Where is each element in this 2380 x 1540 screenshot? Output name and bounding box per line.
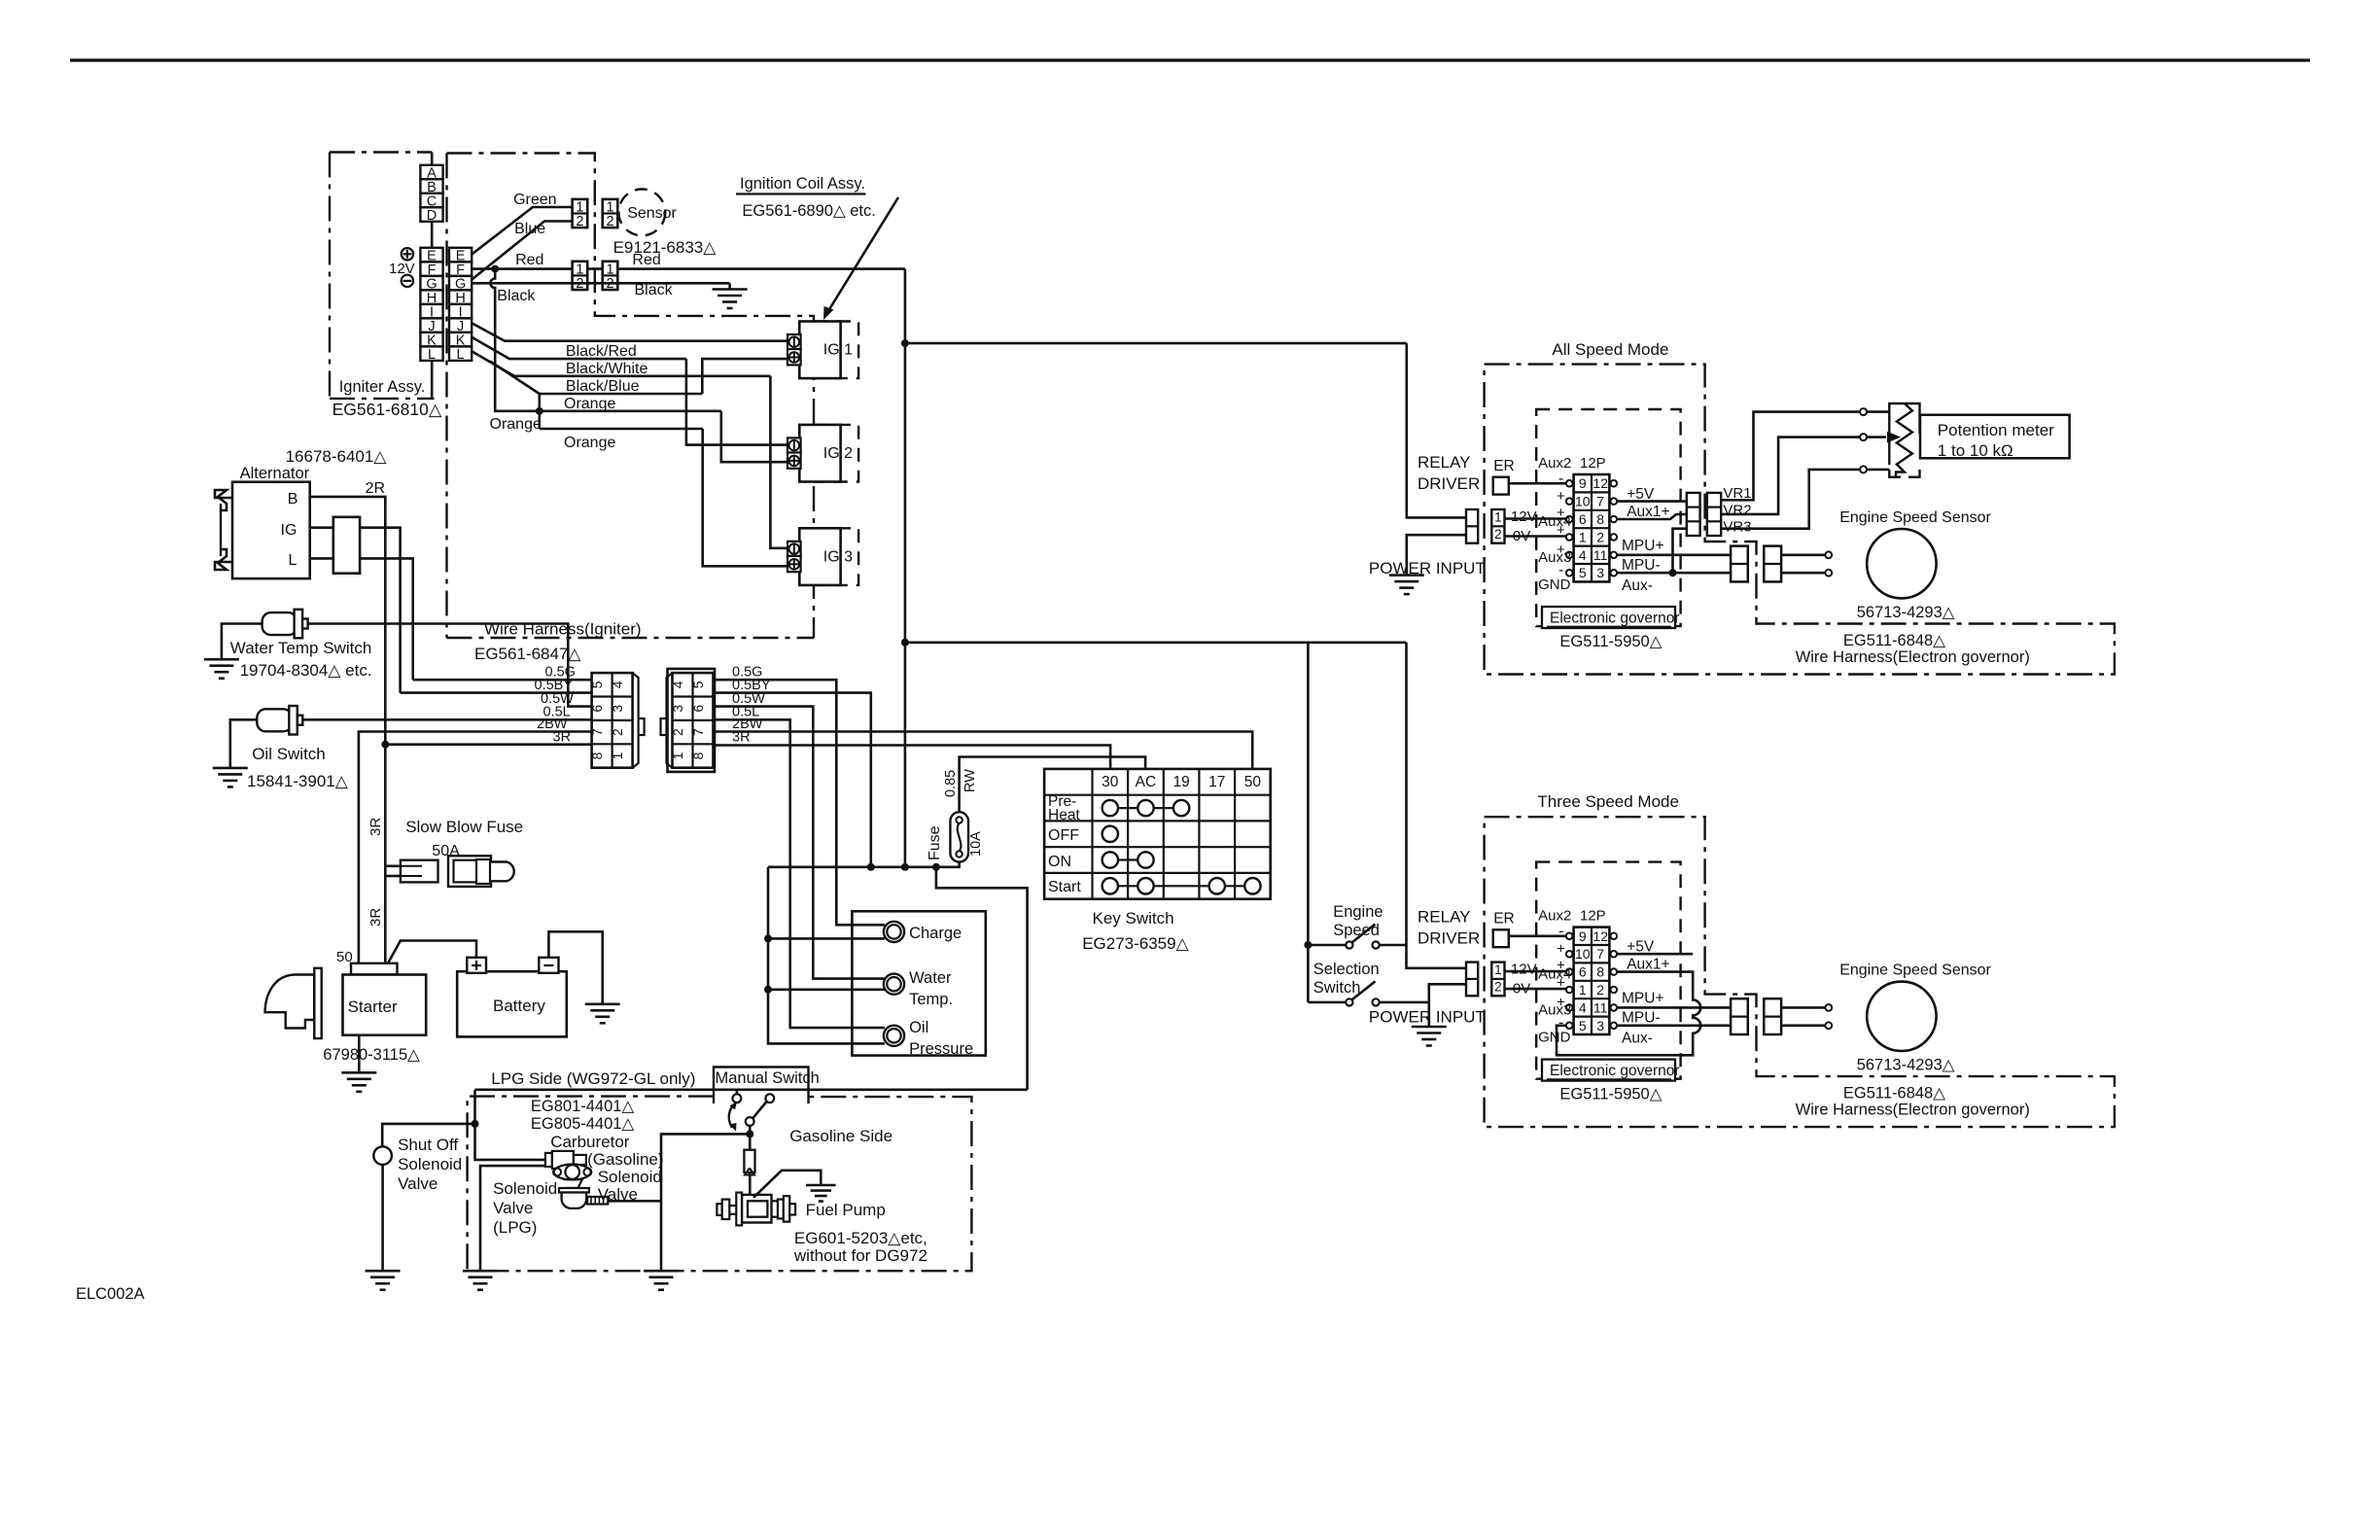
svg-text:6: 6 xyxy=(1579,511,1587,527)
svg-text:L: L xyxy=(289,552,297,569)
svg-text:5: 5 xyxy=(1579,1018,1587,1033)
svg-text:3R: 3R xyxy=(367,908,384,927)
svg-text:Shut Off: Shut Off xyxy=(398,1136,458,1154)
svg-text:Green: Green xyxy=(513,192,556,208)
svg-text:1: 1 xyxy=(606,262,613,277)
svg-text:EG801-4401△: EG801-4401△ xyxy=(531,1098,636,1115)
svg-text:4: 4 xyxy=(670,681,685,688)
wire VR3 to pot xyxy=(1721,470,1860,529)
svg-text:All Speed Mode: All Speed Mode xyxy=(1552,340,1668,359)
ignition coil IG2 xyxy=(815,425,858,482)
wire K Black/Red xyxy=(472,337,686,360)
svg-text:1: 1 xyxy=(606,200,613,216)
svg-text:EG561-6847△: EG561-6847△ xyxy=(474,645,581,663)
plus symbol 12V xyxy=(402,248,413,260)
wire stub D to E xyxy=(431,222,434,248)
svg-text:Blue: Blue xyxy=(514,221,545,237)
junction dot water temp feed xyxy=(764,986,772,994)
svg-text:Black/Blue: Black/Blue xyxy=(566,378,640,395)
svg-text:Temp.: Temp. xyxy=(909,991,953,1008)
svg-text:ON: ON xyxy=(1048,854,1071,870)
svg-text:2: 2 xyxy=(1494,980,1502,995)
svg-text:IG 1: IG 1 xyxy=(823,342,853,359)
svg-text:5: 5 xyxy=(589,681,605,688)
wire oil switch to ground xyxy=(230,719,257,768)
VR connector left half xyxy=(1687,493,1700,536)
svg-text:Valve: Valve xyxy=(493,1199,533,1217)
svg-text:6: 6 xyxy=(589,705,605,713)
junction dot three speed feed xyxy=(901,639,909,647)
LPG box (dash-dot) xyxy=(468,1097,972,1272)
alternator connector box xyxy=(333,517,360,574)
svg-text:DRIVER: DRIVER xyxy=(1417,929,1480,948)
battery plus terminal xyxy=(467,958,486,973)
wire fuse to AC xyxy=(960,757,1146,813)
svg-text:1: 1 xyxy=(576,200,583,216)
wire 0.5BY row left xyxy=(401,691,592,694)
svg-text:EG273-6359△: EG273-6359△ xyxy=(1082,934,1189,953)
threespeed MPU connector right half xyxy=(1764,998,1781,1034)
svg-text:Alternator: Alternator xyxy=(240,465,310,482)
threespeed engine speed sensor circle xyxy=(1867,982,1936,1051)
svg-text:Oil: Oil xyxy=(909,1019,928,1036)
starter box xyxy=(343,975,427,1035)
svg-text:IG: IG xyxy=(281,522,297,539)
svg-text:6: 6 xyxy=(1579,964,1587,980)
svg-text:Orange: Orange xyxy=(564,435,615,451)
allspeed 12P connector grid xyxy=(1574,474,1610,581)
junction dot LPG feed xyxy=(472,1120,479,1128)
ground WTS xyxy=(204,658,239,661)
junction dot 3R B xyxy=(381,741,389,749)
wire solenoid valve lower xyxy=(480,1166,545,1271)
wire solenoid valve upper xyxy=(475,1124,545,1160)
svg-text:Aux2: Aux2 xyxy=(1538,455,1571,472)
svg-text:(Gasoline): (Gasoline) xyxy=(587,1150,663,1169)
wire alternator IG xyxy=(310,528,401,693)
svg-text:7: 7 xyxy=(1596,946,1604,962)
svg-text:Solenoid: Solenoid xyxy=(398,1155,462,1173)
svg-text:EG511-6848△: EG511-6848△ xyxy=(1843,632,1946,649)
ground solenoid LPG xyxy=(463,1270,498,1273)
bus wire ON power xyxy=(768,862,960,867)
svg-text:4: 4 xyxy=(1579,999,1587,1015)
svg-text:4: 4 xyxy=(1579,547,1587,563)
ground fuel pump xyxy=(806,1184,836,1187)
sensor circle (dashed) xyxy=(618,190,665,236)
manual switch arc arrow xyxy=(729,1105,733,1129)
svg-text:without for DG972: without for DG972 xyxy=(793,1246,927,1265)
svg-text:3R: 3R xyxy=(553,730,572,746)
wire battery minus to ground xyxy=(548,931,602,1004)
wire Orange lower xyxy=(540,428,703,431)
svg-text:Slow Blow Fuse: Slow Blow Fuse xyxy=(405,818,523,836)
svg-text:Carburetor: Carburetor xyxy=(550,1133,630,1151)
wire to shut off solenoid xyxy=(382,1124,474,1147)
svg-text:+: + xyxy=(1557,941,1565,958)
svg-text:8: 8 xyxy=(589,752,605,759)
svg-text:Solenoid: Solenoid xyxy=(598,1168,662,1186)
svg-text:2: 2 xyxy=(670,728,685,736)
key switch contacts xyxy=(1110,807,1181,809)
threespeed wire +5V stub xyxy=(1617,953,1693,956)
svg-text:Heat: Heat xyxy=(1048,807,1080,823)
svg-text:Black/Red: Black/Red xyxy=(566,343,637,360)
svg-text:Starter: Starter xyxy=(348,997,398,1016)
svg-text:+: + xyxy=(1557,488,1565,505)
svg-text:Aux-: Aux- xyxy=(1622,1031,1653,1047)
svg-text:MPU+: MPU+ xyxy=(1622,538,1664,554)
svg-text:Black: Black xyxy=(635,282,674,298)
svg-text:DRIVER: DRIVER xyxy=(1417,474,1480,493)
svg-text:Orange: Orange xyxy=(564,396,615,412)
svg-text:9: 9 xyxy=(1579,475,1587,491)
wire 0.5G row right xyxy=(715,680,885,925)
svg-text:2: 2 xyxy=(610,728,625,736)
svg-text:Engine Speed Sensor: Engine Speed Sensor xyxy=(1839,962,1991,979)
svg-text:EG511-6848△: EG511-6848△ xyxy=(1843,1085,1946,1102)
orange bus vertical xyxy=(538,394,541,429)
svg-text:19: 19 xyxy=(1172,774,1189,790)
slow blow fuse connector xyxy=(385,864,401,867)
threespeed governor outer boundary (dash-dot) xyxy=(1485,817,2115,1127)
shut off solenoid valve circle xyxy=(373,1146,392,1165)
allspeed wire MPU- xyxy=(1617,572,1731,575)
svg-text:1: 1 xyxy=(1579,529,1587,544)
connector 1-2 (red/black sensor side) xyxy=(603,262,618,290)
svg-text:3: 3 xyxy=(1596,1018,1604,1033)
svg-text:L: L xyxy=(457,347,465,363)
svg-text:12: 12 xyxy=(1592,928,1608,944)
allspeed wire ER to pin 9 xyxy=(1509,482,1566,485)
manual switch arm xyxy=(753,1102,767,1118)
svg-text:Aux4: Aux4 xyxy=(1538,513,1571,530)
ground battery xyxy=(585,1003,620,1006)
wire 2BW row right to key 50 xyxy=(715,732,1252,769)
allspeed ground power input xyxy=(1389,574,1424,577)
allspeed power connector right half xyxy=(1491,509,1504,543)
svg-text:5: 5 xyxy=(690,681,706,688)
svg-text:Start: Start xyxy=(1048,879,1081,895)
svg-text:Three Speed Mode: Three Speed Mode xyxy=(1537,792,1679,811)
connector 1-2 (red/black harness side) xyxy=(573,262,588,290)
allspeed MPU connector right half xyxy=(1764,546,1781,582)
allspeed engine speed sensor circle xyxy=(1867,529,1936,598)
connector column E-L (harness side) xyxy=(449,248,472,262)
wire shut off valve to ground xyxy=(381,1165,384,1271)
potentiometer label box xyxy=(1920,415,2070,459)
allspeed wire Aux- to VR3 xyxy=(1673,529,1687,574)
wire alternator L xyxy=(310,558,413,680)
svg-text:Sensor: Sensor xyxy=(627,205,677,222)
junction dot bus 0.5BY xyxy=(867,863,875,871)
junction dot bus fuse branch xyxy=(932,863,940,871)
wire Orange upper down to IG2 plus xyxy=(721,411,787,462)
svg-text:1: 1 xyxy=(576,262,583,277)
wire Orange lower down to IG3 plus xyxy=(703,429,787,566)
ignition coil IG1 xyxy=(815,322,858,379)
svg-text:Aux1+: Aux1+ xyxy=(1627,504,1669,520)
svg-text:RELAY: RELAY xyxy=(1417,908,1471,927)
wire WTS to ground xyxy=(222,624,262,660)
svg-text:2R: 2R xyxy=(366,480,385,497)
wire battery plus to starter xyxy=(388,941,476,963)
svg-text:1: 1 xyxy=(1494,962,1502,977)
allspeed junction dot Aux- xyxy=(1669,569,1677,577)
wire 0.5BY row right xyxy=(715,693,871,867)
manual switch right contact xyxy=(765,1094,774,1102)
resistor fuel pump xyxy=(744,1150,754,1172)
selection switch xyxy=(1308,1001,1346,1004)
svg-text:Switch: Switch xyxy=(1313,979,1361,997)
svg-text:1: 1 xyxy=(1579,982,1587,997)
svg-text:3R: 3R xyxy=(732,730,751,746)
svg-text:12P: 12P xyxy=(1580,908,1606,925)
svg-text:Wire Harness(Electron governor: Wire Harness(Electron governor) xyxy=(1796,1102,2030,1119)
svg-text:6: 6 xyxy=(690,705,706,713)
wire harness igniter boundary (dash-dot) xyxy=(447,154,815,639)
svg-text:+: + xyxy=(1557,975,1565,992)
svg-text:Aux2: Aux2 xyxy=(1538,908,1571,925)
svg-text:Aux4: Aux4 xyxy=(1538,966,1571,983)
wire red junction down to orange bus xyxy=(490,269,539,411)
svg-text:EG561-6890△ etc.: EG561-6890△ etc. xyxy=(742,202,875,220)
svg-text:Black/White: Black/White xyxy=(566,361,648,377)
svg-text:Water Temp Switch: Water Temp Switch xyxy=(230,639,371,657)
svg-text:IG 3: IG 3 xyxy=(823,548,853,565)
allspeed electronic governor label box xyxy=(1542,607,1675,628)
wire LPG feed line xyxy=(475,1089,1028,1092)
svg-text:10: 10 xyxy=(1575,494,1591,509)
threespeed electronic governor label box xyxy=(1542,1060,1675,1081)
svg-text:EG561-6810△: EG561-6810△ xyxy=(332,400,442,419)
threespeed wire MPU+ to sensor xyxy=(1781,1006,1825,1009)
svg-text:ER: ER xyxy=(1493,458,1515,474)
svg-text:8: 8 xyxy=(1596,511,1604,527)
wire LPG solenoid to ground rail xyxy=(608,1200,661,1203)
wire manual switch to resistor xyxy=(749,1134,752,1149)
svg-text:12P: 12P xyxy=(1580,455,1606,472)
allspeed electronic governor inner box (dashed) xyxy=(1536,409,1680,626)
svg-text:-: - xyxy=(1558,471,1563,487)
svg-text:GND: GND xyxy=(1538,577,1571,593)
carburetor flange xyxy=(554,1165,591,1180)
svg-text:8: 8 xyxy=(690,752,706,759)
svg-text:30: 30 xyxy=(1102,774,1119,790)
svg-text:3: 3 xyxy=(1596,565,1604,580)
page top rule xyxy=(70,58,2310,61)
svg-text:9: 9 xyxy=(1579,928,1587,944)
igniter assy box (dash-dot) xyxy=(330,151,432,153)
svg-text:2: 2 xyxy=(1494,527,1502,542)
svg-text:MPU+: MPU+ xyxy=(1622,991,1664,1007)
ground oil switch xyxy=(213,767,248,770)
carburetor bowl flange xyxy=(559,1188,589,1193)
fuel pump symbol xyxy=(717,1204,721,1215)
gasoline solenoid valve symbol xyxy=(545,1153,552,1167)
svg-text:8: 8 xyxy=(1596,964,1604,980)
svg-text:RELAY: RELAY xyxy=(1417,453,1471,472)
svg-text:GND: GND xyxy=(1538,1030,1571,1046)
svg-text:Fuse: Fuse xyxy=(927,825,943,860)
svg-text:11: 11 xyxy=(1593,547,1608,563)
svg-text:ER: ER xyxy=(1493,911,1515,927)
ignition coil IG3 xyxy=(815,528,858,585)
svg-text:Battery: Battery xyxy=(493,997,545,1015)
allspeed power input ground wire xyxy=(1407,535,1466,575)
svg-text:Engine: Engine xyxy=(1333,903,1382,921)
wire alternator B 2R xyxy=(310,497,386,745)
svg-text:0.85: 0.85 xyxy=(943,770,959,797)
potentiometer outline xyxy=(1889,403,1919,465)
wire F Red to main vertical xyxy=(472,267,905,270)
wire water temp lamp lower xyxy=(768,988,885,991)
svg-text:11: 11 xyxy=(1593,999,1608,1015)
svg-text:EG805-4401△: EG805-4401△ xyxy=(531,1115,636,1133)
svg-text:7: 7 xyxy=(1596,494,1604,509)
starter nose xyxy=(265,975,315,1029)
key switch table grid xyxy=(1044,769,1271,899)
wire L Black/White xyxy=(472,351,771,376)
svg-text:MPU-: MPU- xyxy=(1622,557,1661,574)
svg-text:OFF: OFF xyxy=(1048,827,1079,844)
ground rail LPG xyxy=(644,1270,679,1273)
wire bus down and right xyxy=(936,867,1028,1090)
threespeed wire ER to pin 9 xyxy=(1509,934,1566,937)
junction dot charge feed xyxy=(764,934,772,942)
threespeed wire 0V to pin 1 xyxy=(1505,988,1567,991)
threespeed 12P connector grid xyxy=(1574,927,1610,1034)
threespeed wire Aux1+ detour xyxy=(1557,972,1700,1056)
wire J to IG1 minus xyxy=(472,323,787,341)
svg-text:1: 1 xyxy=(670,752,685,759)
svg-text:5: 5 xyxy=(1579,565,1587,580)
svg-text:50A: 50A xyxy=(432,843,460,859)
svg-text:3: 3 xyxy=(610,705,625,713)
threespeed MPU connector left half xyxy=(1731,998,1748,1034)
wire ground rail xyxy=(661,1134,750,1271)
wire 3R row left xyxy=(385,743,591,746)
alternator pulley xyxy=(215,490,232,510)
allspeed MPU connector left half xyxy=(1731,546,1748,582)
svg-text:Igniter Assy.: Igniter Assy. xyxy=(339,378,426,396)
threespeed wire MPU- to sensor xyxy=(1781,1025,1825,1028)
allspeed wire 12V to pin 6 xyxy=(1505,517,1567,520)
allspeed wire MPU+ to sensor xyxy=(1781,553,1825,556)
svg-text:D: D xyxy=(427,208,437,224)
svg-text:15841-3901△: 15841-3901△ xyxy=(247,772,349,790)
svg-text:Selection: Selection xyxy=(1313,961,1380,978)
battery minus terminal xyxy=(539,958,558,973)
water temp lamp xyxy=(884,974,904,995)
connector 1-2 (green/blue harness side) xyxy=(573,199,588,227)
ground black sensor wire xyxy=(728,283,731,289)
svg-text:Aux-: Aux- xyxy=(1622,577,1653,594)
threespeed power input ground wire xyxy=(1429,984,1466,1027)
svg-text:10A: 10A xyxy=(968,831,984,857)
svg-text:17: 17 xyxy=(1208,774,1225,790)
svg-text:EG511-5950△: EG511-5950△ xyxy=(1559,633,1662,650)
wire manual switch common xyxy=(749,1126,752,1134)
wire VR1 to pot xyxy=(1721,412,1860,501)
svg-text:Gasoline Side: Gasoline Side xyxy=(789,1127,892,1145)
svg-text:12V: 12V xyxy=(1511,962,1537,978)
svg-text:E9121-6833△: E9121-6833△ xyxy=(613,238,717,257)
svg-text:Red: Red xyxy=(515,252,543,268)
svg-text:1: 1 xyxy=(610,752,625,759)
potentiometer resistor xyxy=(1896,403,1912,478)
svg-text:EG511-5950△: EG511-5950△ xyxy=(1559,1086,1662,1103)
allspeed 12P connector pins xyxy=(1566,480,1573,487)
wire 3R row right to key 30 xyxy=(715,746,1110,769)
8-pin connector (left half) xyxy=(592,673,633,768)
wire WTS to 0.5W row xyxy=(308,624,592,707)
svg-text:12V: 12V xyxy=(389,261,415,277)
svg-text:AC: AC xyxy=(1136,774,1157,790)
svg-text:10: 10 xyxy=(1575,946,1591,962)
allspeed ER box xyxy=(1493,477,1509,495)
svg-text:Aux1+: Aux1+ xyxy=(1627,957,1669,973)
wire Orange upper xyxy=(540,409,721,412)
water temp switch symbol xyxy=(262,612,297,635)
svg-text:Aux3: Aux3 xyxy=(1538,549,1571,566)
allspeed power connector left half xyxy=(1466,509,1478,543)
svg-text:Fuel Pump: Fuel Pump xyxy=(806,1201,886,1219)
main vertical wire from Red wire xyxy=(904,269,907,867)
wire E to sensor connector (Green) xyxy=(472,207,573,255)
diagonal branch to Black/Blue xyxy=(490,362,540,395)
wire resistor to fuel pump xyxy=(749,1172,752,1198)
svg-text:Red: Red xyxy=(632,252,660,268)
svg-text:67980-3115△: 67980-3115△ xyxy=(323,1046,421,1064)
alternator box xyxy=(232,482,310,578)
svg-text:56713-4293△: 56713-4293△ xyxy=(1857,1057,1956,1074)
wire G to sensor connector (Blue) xyxy=(472,222,573,281)
svg-text:4: 4 xyxy=(610,681,625,688)
svg-text:VR3: VR3 xyxy=(1723,519,1751,536)
svg-text:2: 2 xyxy=(606,214,613,229)
threespeed relay driver feed wire xyxy=(1407,643,1467,968)
allspeed wire 0V to pin 1 xyxy=(1505,535,1567,538)
wire 0.5L row right xyxy=(715,719,885,1028)
svg-text:12: 12 xyxy=(1592,475,1608,491)
junction dot selector xyxy=(1304,941,1312,949)
minus symbol 12V xyxy=(402,275,413,287)
svg-text:Potention meter: Potention meter xyxy=(1938,421,2054,439)
charge lamp xyxy=(884,922,904,942)
threespeed power connector right half xyxy=(1491,962,1504,997)
manual switch box xyxy=(714,1067,809,1104)
svg-text:MPU-: MPU- xyxy=(1622,1010,1661,1027)
threespeed wire 12V to pin 6 xyxy=(1505,970,1567,973)
junction dot bus xyxy=(901,863,909,871)
svg-text:Aux3: Aux3 xyxy=(1538,1002,1571,1019)
oil pressure lamp xyxy=(884,1026,904,1046)
slow blow fuse body xyxy=(448,856,491,887)
svg-text:Orange: Orange xyxy=(490,416,542,433)
svg-text:RW: RW xyxy=(962,769,978,792)
allspeed wire MPU+ xyxy=(1617,553,1731,556)
svg-text:2: 2 xyxy=(1596,529,1604,544)
svg-text:7: 7 xyxy=(690,728,706,736)
svg-text:POWER INPUT: POWER INPUT xyxy=(1369,1008,1486,1027)
svg-text:Water: Water xyxy=(909,969,952,987)
svg-text:Engine Speed Sensor: Engine Speed Sensor xyxy=(1839,509,1991,526)
8-pin connector (right half) xyxy=(668,669,716,772)
threespeed 12P connector pins xyxy=(1566,933,1573,940)
svg-text:3: 3 xyxy=(670,705,685,713)
ground starter xyxy=(341,1071,376,1074)
